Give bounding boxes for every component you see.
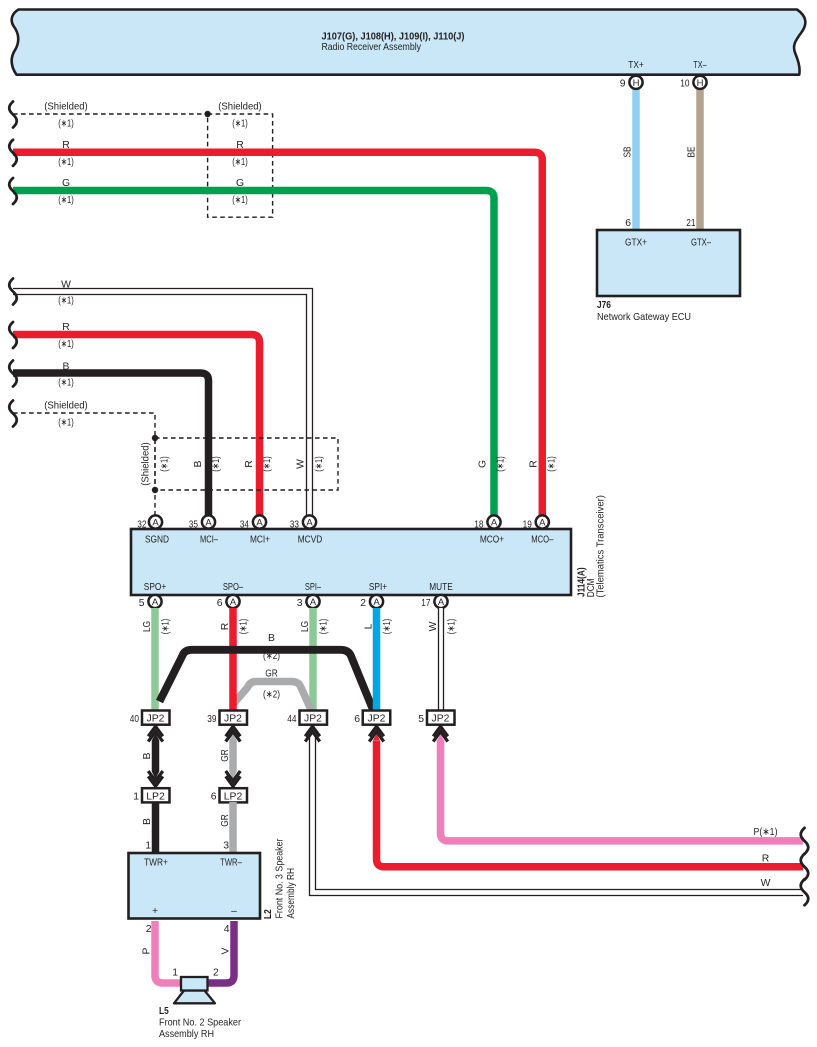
shield box A (dashed) (208, 102, 273, 218)
svg-text:B: B (193, 460, 204, 467)
DCM box J114(A) Telematics Transceiver (131, 495, 607, 598)
connector banner J107/J108/J109/J110 Radio Receiver Assembly (12, 10, 806, 75)
svg-text:MCVD: MCVD (298, 535, 323, 546)
svg-text:9: 9 (620, 79, 626, 90)
svg-text:JP2: JP2 (147, 714, 165, 725)
svg-text:TX+: TX+ (628, 60, 644, 71)
svg-text:(Shielded): (Shielded) (44, 102, 88, 113)
svg-text:GR: GR (220, 814, 231, 827)
svg-text:L: L (364, 623, 375, 629)
wire shielded B (dashed, to SGND) (13, 401, 155, 518)
junction dot (shield A) (204, 111, 210, 117)
svg-text:A: A (152, 518, 159, 529)
pin 35 A (MCI-) (189, 515, 215, 530)
svg-text:Assembly RH: Assembly RH (159, 1029, 214, 1040)
svg-text:(Telematics Transceiver): (Telematics Transceiver) (596, 495, 607, 598)
wire W (to MCVD, white wire) (13, 279, 313, 517)
svg-text:B: B (63, 361, 70, 372)
wire GR (39 JP2 to 6 LP2) (220, 734, 237, 779)
svg-text:P: P (142, 947, 153, 954)
squiggle left (wire R) (9, 140, 17, 166)
squiggle left (wire G) (9, 178, 17, 204)
wire G (to MCO+) (13, 178, 507, 517)
wire R (to MCO-) (13, 140, 558, 517)
svg-text:(∗2): (∗2) (263, 651, 280, 662)
pin 17 A (MUTE) (421, 595, 447, 609)
svg-text:21: 21 (686, 218, 695, 229)
svg-text:LG: LG (300, 621, 311, 632)
svg-text:H: H (697, 78, 704, 89)
svg-text:2: 2 (360, 598, 366, 609)
junction dot (shield B top) (152, 435, 158, 441)
svg-text:(∗2): (∗2) (263, 690, 280, 701)
svg-text:–: – (231, 906, 237, 917)
svg-text:18: 18 (474, 520, 483, 531)
svg-text:R: R (762, 854, 770, 865)
pin 34 A (MCI+) (240, 515, 266, 530)
pin 5 A (SPO+) (139, 595, 162, 609)
svg-text:3: 3 (297, 598, 303, 609)
svg-text:Network Gateway ECU: Network Gateway ECU (597, 312, 691, 323)
connector 44 JP2 (287, 711, 327, 726)
svg-text:2: 2 (213, 968, 219, 979)
arrow chevrons up (below 39 JP2) (226, 724, 241, 742)
svg-text:1: 1 (172, 968, 178, 979)
svg-text:A: A (539, 518, 546, 529)
wire LG (SPI- to 44 JP2) (300, 608, 330, 711)
squiggle left (wire R2) (9, 322, 17, 348)
svg-text:W: W (428, 621, 439, 631)
svg-text:G: G (62, 178, 70, 189)
svg-text:(∗1): (∗1) (160, 456, 171, 472)
svg-text:A: A (256, 518, 263, 529)
svg-text:GR: GR (220, 749, 231, 762)
svg-text:LP2: LP2 (224, 791, 243, 802)
svg-text:P(∗1): P(∗1) (754, 827, 778, 838)
svg-text:(∗1): (∗1) (161, 619, 172, 635)
svg-text:1: 1 (133, 792, 139, 803)
svg-text:6: 6 (217, 598, 223, 609)
svg-text:(∗1): (∗1) (58, 418, 74, 429)
svg-text:(Shielded): (Shielded) (141, 442, 152, 486)
wire R (SPO- to 39 JP2) (220, 608, 250, 711)
svg-text:Front No. 2 Speaker: Front No. 2 Speaker (159, 1018, 241, 1029)
pin 18 A (MCO+) (474, 515, 500, 530)
speaker L5 Front No. 2 Speaker Assembly RH (159, 977, 241, 1040)
svg-text:A: A (491, 518, 498, 529)
wire L (SPI+ to 6 JP2) (364, 608, 394, 711)
svg-text:W: W (761, 878, 771, 889)
svg-text:(∗1): (∗1) (58, 296, 74, 307)
svg-text:Front No. 3 Speaker: Front No. 3 Speaker (275, 838, 286, 918)
svg-text:+: + (152, 906, 158, 917)
svg-text:3: 3 (223, 841, 229, 852)
svg-text:44: 44 (287, 714, 296, 725)
svg-text:MCI+: MCI+ (250, 535, 270, 546)
svg-text:A: A (230, 597, 237, 608)
svg-text:(∗1): (∗1) (319, 619, 330, 635)
wire R (6 JP2 to right edge) (373, 734, 803, 867)
pin 6 A (SPO-) (217, 595, 240, 609)
svg-text:G: G (236, 178, 244, 189)
pin 10 H (TX-) (680, 76, 706, 90)
svg-text:4: 4 (224, 924, 230, 935)
speaker box L2 Front No. 3 Speaker Assembly RH (129, 838, 298, 919)
svg-text:TX–: TX– (693, 60, 707, 71)
wire GR jumper (39 JP2 to 44 JP2) (234, 669, 312, 712)
arrow chevrons up (below 44 JP2) (305, 724, 320, 742)
svg-text:L2: L2 (263, 909, 274, 919)
svg-text:A: A (205, 518, 212, 529)
wire V (TWR- pin 4 to speaker L5 pin 2) (208, 921, 235, 983)
pin 33 A (MCVD) (290, 515, 316, 530)
pin 19 A (MCO-) (523, 515, 549, 530)
svg-text:G: G (478, 460, 489, 468)
svg-text:(∗1): (∗1) (58, 339, 74, 350)
svg-text:TWR+: TWR+ (144, 858, 168, 869)
svg-text:LP2: LP2 (146, 791, 165, 802)
svg-text:H: H (633, 78, 640, 89)
svg-text:L5: L5 (159, 1006, 169, 1017)
svg-text:JP2: JP2 (304, 714, 322, 725)
svg-text:(∗1): (∗1) (232, 119, 248, 130)
connector 1 LP2 (133, 788, 169, 802)
svg-text:B: B (142, 752, 153, 759)
svg-text:6: 6 (354, 714, 360, 725)
wire B jumper (40 JP2 to 6 JP2) (160, 633, 374, 711)
shield box B (dashed) (141, 438, 339, 490)
svg-text:B: B (142, 818, 153, 825)
svg-text:(Shielded): (Shielded) (44, 401, 88, 412)
svg-text:19: 19 (523, 520, 532, 531)
wire LG (SPO+ to 40 JP2) (142, 608, 172, 711)
wire P (TWR+ pin 2 to speaker L5 pin 1) (142, 921, 182, 983)
wire B (1 LP2 to TWR+ pin 1) (142, 802, 156, 853)
svg-text:W: W (296, 459, 307, 469)
squiggle right (wire W) (801, 879, 809, 905)
wire B (40 JP2 to 1 LP2) (142, 734, 159, 779)
svg-text:(∗1): (∗1) (58, 378, 74, 389)
svg-text:R: R (62, 322, 70, 333)
arrow chevrons up (below 5 JP2) (433, 724, 448, 742)
ECU box J76 Network Gateway ECU (597, 230, 740, 323)
svg-text:B: B (268, 633, 275, 644)
svg-text:(∗1): (∗1) (232, 157, 248, 168)
svg-text:R: R (62, 140, 70, 151)
node TX+ label (628, 60, 644, 71)
svg-text:SPO+: SPO+ (144, 582, 166, 593)
svg-text:(Shielded): (Shielded) (218, 102, 262, 113)
wire B (to MCI-) (13, 361, 209, 517)
arrow chevrons down (above 1 LP2) (148, 771, 163, 789)
svg-text:6: 6 (625, 218, 631, 229)
svg-text:1: 1 (145, 841, 151, 852)
svg-text:40: 40 (130, 714, 139, 725)
squiggle left (shielded A) (9, 102, 17, 128)
svg-text:5: 5 (139, 598, 145, 609)
svg-text:MCO+: MCO+ (480, 535, 504, 546)
svg-text:TWR–: TWR– (220, 858, 242, 869)
svg-text:33: 33 (290, 520, 299, 531)
connector 6 JP2 (354, 711, 390, 726)
pin 21 label (GTX-) (686, 218, 695, 229)
wire SB (TX+ to GTX+) (623, 85, 637, 230)
svg-text:MCO–: MCO– (531, 535, 553, 546)
svg-text:SB: SB (623, 146, 634, 157)
svg-text:10: 10 (680, 79, 689, 90)
wire GR (6 LP2 to TWR- pin 3) (220, 802, 233, 853)
svg-text:MUTE: MUTE (429, 582, 453, 593)
svg-text:(∗1): (∗1) (262, 456, 273, 472)
node TX- label (693, 60, 707, 71)
svg-text:(∗1): (∗1) (314, 456, 325, 472)
arrow chevrons up (below 6 JP2) (369, 724, 384, 742)
wire W (MUTE to 5 JP2, white wire) (428, 608, 458, 711)
svg-text:34: 34 (240, 520, 249, 531)
arrow chevrons up (below 40 JP2) (148, 724, 163, 742)
svg-text:SPI–: SPI– (305, 582, 321, 593)
svg-text:R: R (244, 460, 255, 468)
svg-text:A: A (306, 518, 313, 529)
svg-text:35: 35 (189, 520, 198, 531)
svg-text:GTX+: GTX+ (625, 238, 647, 249)
connector 39 JP2 (207, 711, 247, 726)
squiggle right (wire R) (801, 854, 809, 880)
svg-text:17: 17 (421, 598, 430, 609)
svg-text:GTX–: GTX– (691, 238, 711, 249)
svg-text:SPI+: SPI+ (369, 582, 387, 593)
pin 2 A (SPI+) (360, 595, 383, 609)
wire R2 (to MCI+) (13, 322, 260, 517)
svg-text:(∗1): (∗1) (447, 619, 458, 635)
wire P (5 JP2 to right edge) (437, 734, 803, 841)
arrow chevrons down (above 6 LP2) (226, 771, 241, 789)
svg-text:(∗1): (∗1) (58, 195, 74, 206)
svg-text:J76: J76 (597, 300, 611, 311)
svg-text:(∗1): (∗1) (58, 157, 74, 168)
svg-text:Radio Receiver Assembly: Radio Receiver Assembly (322, 42, 422, 53)
svg-text:(∗1): (∗1) (232, 195, 248, 206)
svg-text:JP2: JP2 (224, 714, 242, 725)
svg-text:BE: BE (687, 146, 698, 157)
pin 32 A (SGND) (137, 515, 162, 530)
svg-text:R: R (529, 460, 540, 468)
svg-text:5: 5 (418, 714, 424, 725)
svg-text:A: A (373, 597, 380, 608)
svg-text:JP2: JP2 (368, 714, 386, 725)
squiggle left (shielded B) (9, 401, 17, 427)
pin 9 H (TX+) (620, 76, 643, 90)
wire W (44 JP2 to right edge, white wire) (310, 737, 804, 896)
svg-text:JP2: JP2 (432, 714, 450, 725)
svg-text:(∗1): (∗1) (547, 456, 558, 472)
pin 3 A (SPI-) (297, 595, 320, 609)
connector 5 JP2 (418, 711, 454, 726)
svg-text:SGND: SGND (145, 535, 169, 546)
svg-text:J107(G), J108(H), J109(I), J11: J107(G), J108(H), J109(I), J110(J) (322, 32, 465, 43)
squiggle left (wire W) (9, 279, 17, 305)
svg-text:MCI–: MCI– (200, 535, 218, 546)
squiggle left (wire B) (9, 361, 17, 387)
junction dot (shield B bottom) (152, 487, 158, 493)
connector 40 JP2 (130, 711, 170, 726)
svg-text:V: V (221, 947, 232, 954)
svg-text:SPO–: SPO– (223, 582, 243, 593)
svg-text:32: 32 (137, 520, 146, 531)
wire shielded A (dashed, left to shield box) (13, 102, 208, 130)
svg-text:W: W (61, 279, 71, 290)
wire BE (TX- to GTX-) (687, 85, 701, 230)
pin 6 label (GTX+) (625, 218, 631, 229)
svg-text:A: A (152, 597, 159, 608)
svg-text:A: A (310, 597, 317, 608)
svg-text:(∗1): (∗1) (239, 619, 250, 635)
svg-text:R: R (236, 140, 244, 151)
svg-text:2: 2 (146, 924, 152, 935)
svg-text:GR: GR (265, 669, 278, 680)
squiggle right (wire P) (801, 828, 809, 854)
connector 6 LP2 (211, 788, 247, 802)
svg-text:6: 6 (211, 792, 217, 803)
svg-text:A: A (438, 597, 445, 608)
svg-text:(∗1): (∗1) (496, 456, 507, 472)
svg-text:(∗1): (∗1) (382, 619, 393, 635)
svg-text:39: 39 (207, 714, 216, 725)
svg-text:(∗1): (∗1) (211, 456, 222, 472)
svg-text:R: R (220, 622, 231, 630)
svg-text:(∗1): (∗1) (58, 119, 74, 130)
svg-text:LG: LG (142, 621, 153, 632)
svg-text:Assembly RH: Assembly RH (286, 868, 297, 919)
